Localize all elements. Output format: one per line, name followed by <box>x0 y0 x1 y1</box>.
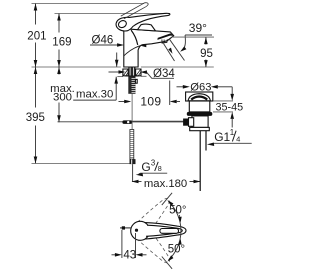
vertical highlight stripes on shank top part <box>129 68 131 76</box>
svg-text:395: 395 <box>26 112 45 124</box>
plug dome <box>188 94 210 101</box>
hole edge arrow (left, pairing with Ø34 leader) <box>109 70 126 74</box>
rod knob (plan) <box>122 226 125 229</box>
dimension 95 <box>172 37 215 67</box>
svg-text:43: 43 <box>123 250 136 262</box>
washer underside line <box>125 75 138 77</box>
dimension max.300 <box>50 67 75 122</box>
svg-text:G: G <box>141 160 150 174</box>
39 degree angle construct <box>164 21 213 61</box>
small stub right of shank <box>135 79 137 83</box>
drain pop-up waste body <box>183 92 213 191</box>
pull rod (plan) <box>120 227 131 229</box>
50 degree arc with arrows <box>167 200 181 262</box>
svg-text:35-45: 35-45 <box>216 101 244 113</box>
side port <box>189 118 194 127</box>
neck <box>189 101 210 112</box>
aerator <box>162 39 167 43</box>
bottom reference line (395) <box>32 163 130 165</box>
svg-text:8: 8 <box>158 164 162 173</box>
dimension 201 <box>27 4 46 68</box>
dimension max.30 <box>73 53 118 101</box>
spout tip black wedge <box>157 33 173 40</box>
svg-text:50°: 50° <box>168 244 185 256</box>
dimension max.180 <box>132 178 201 190</box>
bottom nut flange <box>190 127 210 130</box>
svg-text:4: 4 <box>236 134 240 143</box>
lever handle (rest position) <box>116 13 170 31</box>
thin rod below shank <box>131 94 133 130</box>
extension line top (lever raised tip level) <box>32 3 145 5</box>
deck line left <box>32 66 121 68</box>
plan view lever inner outline <box>146 225 182 236</box>
label Ø34 with bent leader <box>140 68 175 80</box>
svg-text:G1: G1 <box>214 130 230 144</box>
tailpipe <box>199 131 201 191</box>
dimension 109 <box>119 81 181 109</box>
plan view (bottom): dashed rotated +50 (up) <box>137 194 174 268</box>
thread bands on shank lower part <box>132 79 136 93</box>
lever grip slot <box>160 229 179 234</box>
lever handle raised (thin outline) <box>121 3 148 19</box>
deck bottom line left <box>117 76 123 78</box>
svg-text:39°: 39° <box>189 21 207 35</box>
pivot dot <box>135 229 138 232</box>
right clamp wedge hatched <box>136 69 141 76</box>
extension line from hose end down <box>132 164 134 182</box>
50° labels with leaders <box>168 205 187 256</box>
dimension 35-45 <box>213 87 243 128</box>
pop-up rod horizontal <box>132 121 184 123</box>
svg-text:50°: 50° <box>169 205 186 217</box>
svg-text:169: 169 <box>52 37 71 49</box>
faucet side view: pillar and spout <box>124 29 174 67</box>
label G 3/8 with leader <box>136 158 168 176</box>
label G1 1/4 with leader <box>207 128 252 146</box>
50 degree legs <box>162 193 172 205</box>
threaded hose segment <box>130 130 134 160</box>
plan view body circle <box>131 221 150 240</box>
dimension 395 <box>26 67 45 164</box>
G 3/8 nut <box>130 159 136 164</box>
drain: Ø63 dimension <box>177 81 233 93</box>
cup flange <box>186 92 213 101</box>
svg-text:109: 109 <box>140 95 161 109</box>
dimension 43 <box>112 230 147 262</box>
svg-text:95: 95 <box>200 48 213 60</box>
shank dark body through hole <box>128 67 135 94</box>
spout underside transition curve <box>131 30 138 45</box>
deck bottom line right <box>141 75 147 77</box>
reference line at hose (max.300 lower ref) with arrow to hose <box>58 120 133 124</box>
cartridge dome <box>138 24 156 31</box>
deck line right <box>141 66 214 68</box>
left clamp wedge hatched <box>123 69 128 76</box>
svg-text:max.180: max.180 <box>144 178 187 190</box>
body front swoosh curve <box>124 45 143 56</box>
svg-text:201: 201 <box>27 31 46 43</box>
shank through deck hole with clamp wedges <box>123 67 141 94</box>
label Ø46 with leader <box>90 35 146 48</box>
dimension 169 <box>52 14 71 68</box>
svg-text:300: 300 <box>53 92 72 104</box>
svg-text:3: 3 <box>151 158 155 167</box>
extension line (lever rest tip level) <box>55 13 171 15</box>
svg-text:max.30: max.30 <box>76 88 113 100</box>
body below <box>192 116 208 128</box>
o-ring black band <box>187 112 213 116</box>
plan view solid faucet spout <box>120 221 186 240</box>
dashed rotated -50 (down) <box>137 229 174 268</box>
